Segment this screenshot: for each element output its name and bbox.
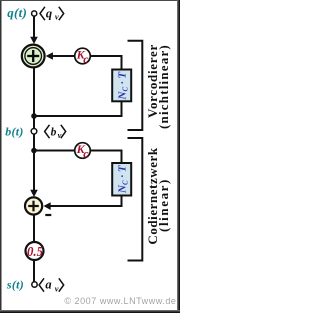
svg-text:(nichtlinear): (nichtlinear) xyxy=(156,44,171,129)
svg-text:s(t): s(t) xyxy=(6,277,24,291)
svg-text:c: c xyxy=(83,147,89,161)
svg-text:a: a xyxy=(45,278,51,292)
svg-text:ν: ν xyxy=(58,130,62,140)
svg-text:q: q xyxy=(46,7,52,21)
svg-text:b: b xyxy=(51,127,57,139)
svg-text:ν: ν xyxy=(55,12,59,22)
svg-text:© 2007 www.LNTwww.de: © 2007 www.LNTwww.de xyxy=(64,296,176,306)
svg-text:ν: ν xyxy=(55,283,59,293)
svg-text:c: c xyxy=(83,52,89,66)
svg-text:b(t): b(t) xyxy=(5,124,24,138)
svg-text:NC · T: NC · T xyxy=(116,164,129,194)
svg-text:0.5: 0.5 xyxy=(27,245,43,260)
svg-text:NC · T: NC · T xyxy=(116,71,129,101)
svg-text:q(t): q(t) xyxy=(7,5,27,20)
svg-text:(linear): (linear) xyxy=(156,178,171,232)
